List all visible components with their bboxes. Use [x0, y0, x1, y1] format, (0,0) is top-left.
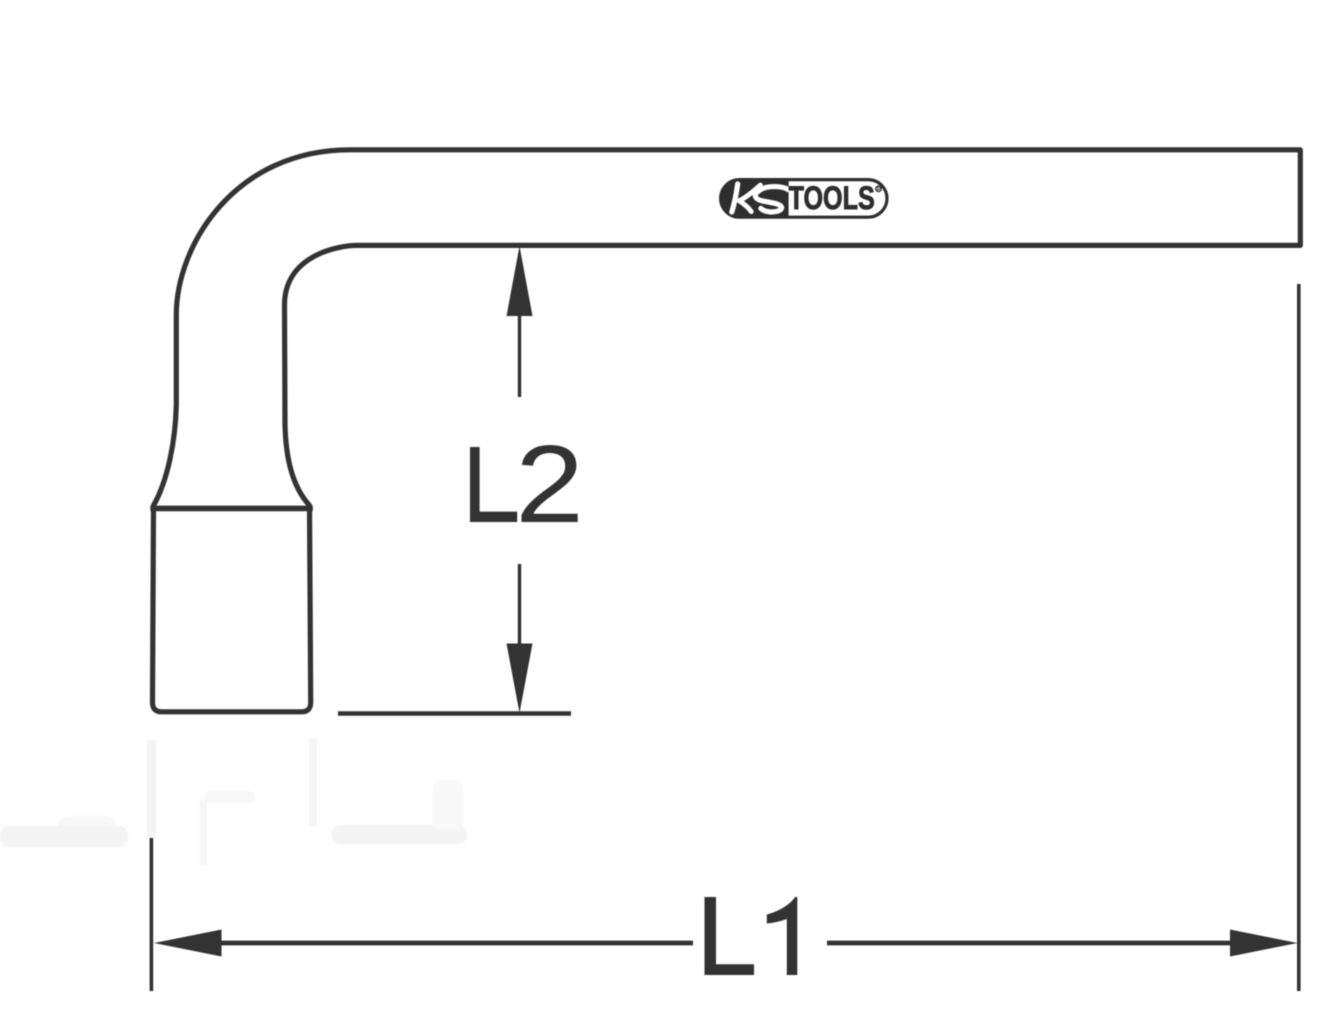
label L1: digit 1 drawn as path: [767, 897, 798, 975]
svg-text:TOOLS: TOOLS: [789, 181, 875, 217]
logo pill border: [721, 180, 887, 218]
KS script letter S: [755, 187, 788, 212]
wrench body silhouette (L-shaped socket wrench outline): [153, 150, 1301, 712]
KS script letter K: [732, 184, 738, 212]
logo dark left half: [720, 179, 788, 218]
dimension L1 left extension line: [150, 838, 154, 991]
dimension L1 line right segment: [827, 941, 1232, 946]
dimension L1 line left segment: [220, 941, 693, 946]
dimension L2 bottom reference line: [338, 711, 571, 716]
KS TOOLS logo pill: [720, 179, 887, 218]
dimension L2 lower line segment: [518, 564, 521, 645]
socket shoulder line: [150, 506, 312, 512]
dimension L2 upper arrowhead: [507, 246, 533, 316]
dimension L1 right extension line: [1297, 284, 1301, 991]
dimension L2 upper line segment: [518, 314, 521, 397]
label L2: letter L drawn as path: [470, 447, 517, 522]
dimension L1 right arrowhead: [1230, 930, 1298, 957]
faint erased-watermark ghost smudges: [0, 738, 467, 865]
svg-text:R: R: [877, 187, 881, 193]
label L1: letter L drawn as path: [705, 897, 755, 975]
svg-text:2: 2: [515, 422, 584, 545]
dimension L1 left arrowhead: [154, 930, 222, 957]
registered trademark mark: [876, 186, 882, 192]
dimension L2 lower arrowhead: [507, 644, 533, 714]
